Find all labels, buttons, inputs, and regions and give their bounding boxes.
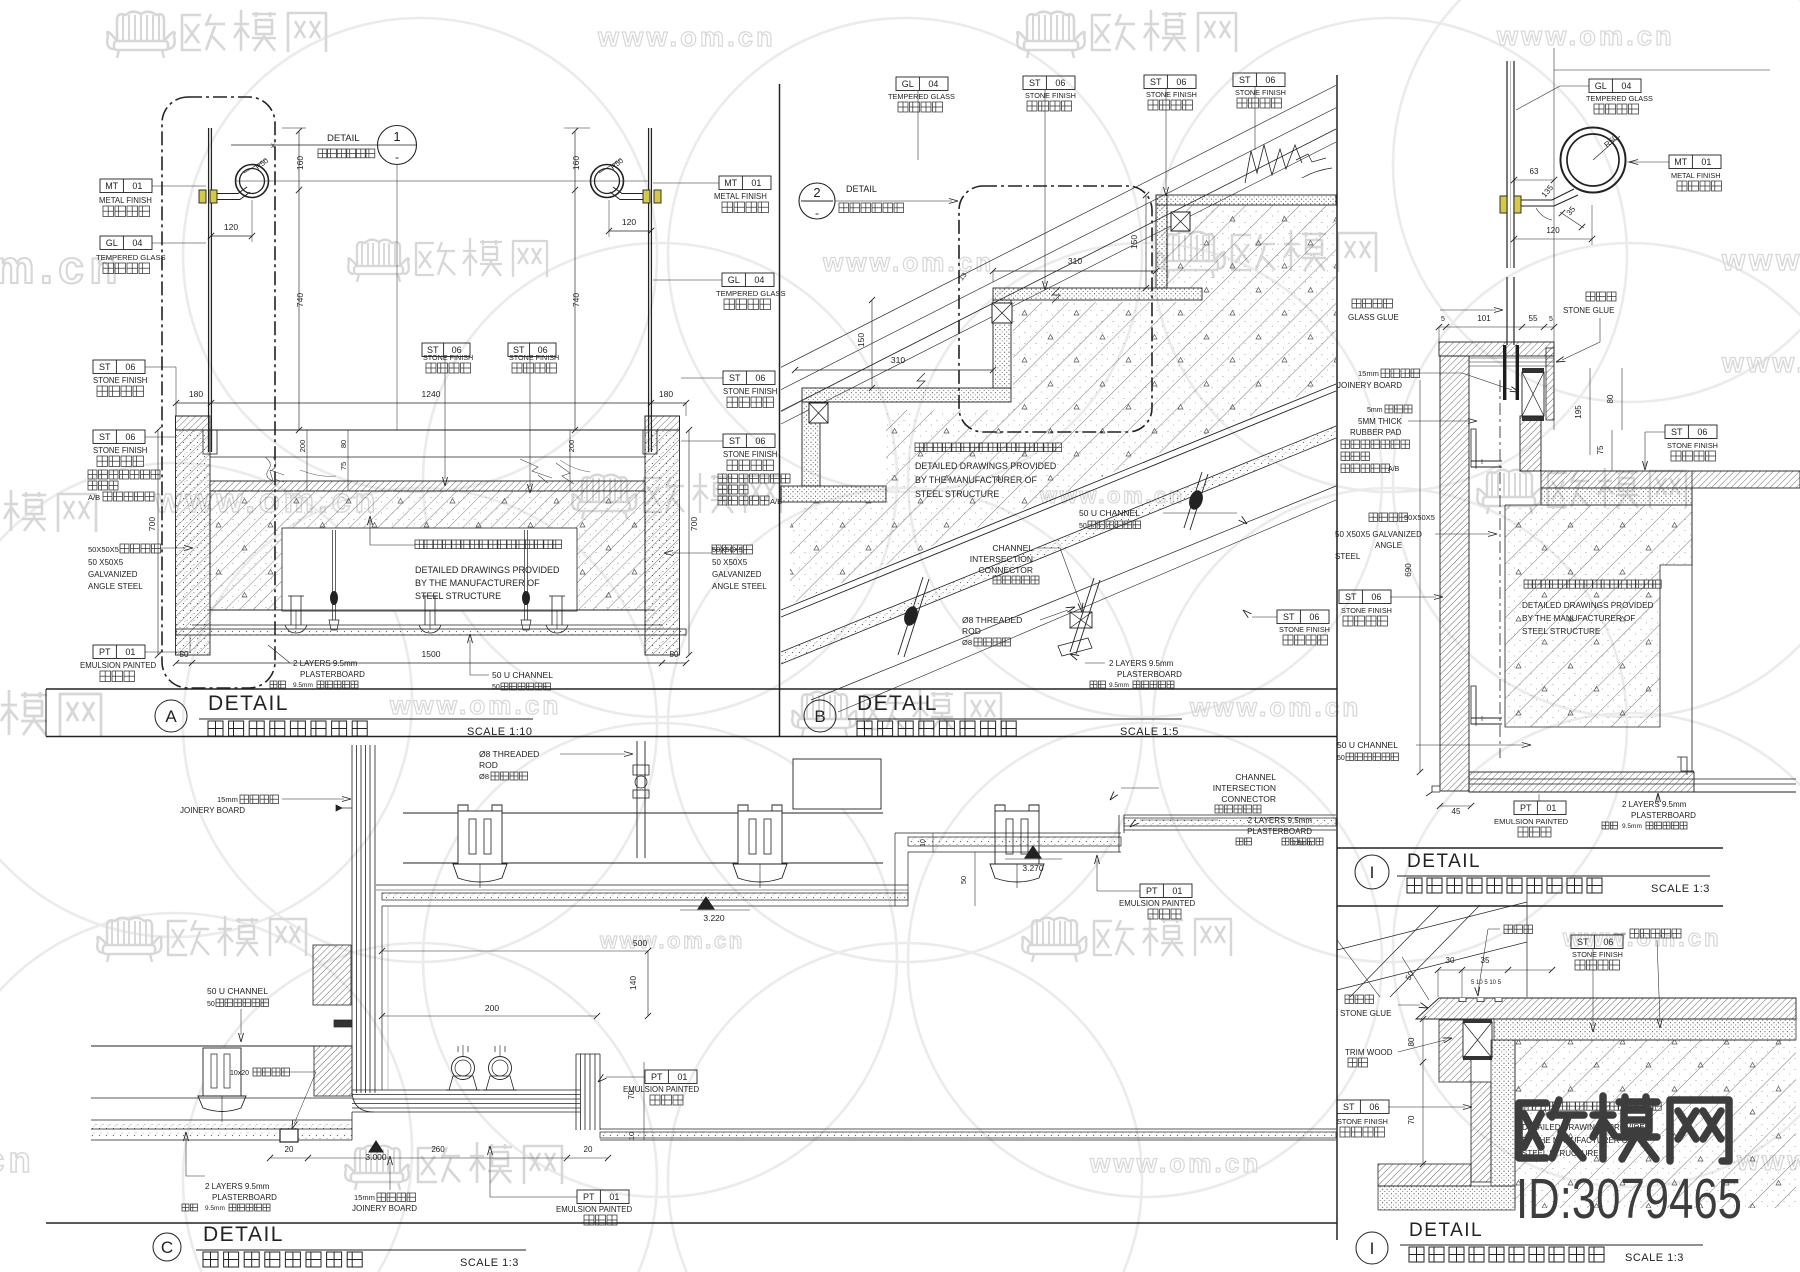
B hanger rod 3	[1184, 472, 1202, 528]
svg-text:STONE GLUE: STONE GLUE	[1563, 306, 1614, 315]
A label ST06 right lower	[723, 434, 775, 448]
I angle brackets	[1471, 429, 1476, 467]
svg-text:50 X50X5: 50 X50X5	[712, 558, 748, 567]
svg-text:www.: www.	[1721, 347, 1800, 378]
C right ceiling band upper	[1124, 814, 1336, 816]
A label PT01 left	[93, 645, 145, 659]
watermark row4	[0, 690, 101, 736]
A label GL04 right	[722, 273, 774, 287]
C dim 140 right col	[1378, 955, 1380, 1040]
I dim 45	[1440, 805, 1471, 807]
I2 label ST06	[1337, 1100, 1389, 1114]
svg-text:STONE FINISH: STONE FINISH	[93, 376, 147, 385]
B steel structure note	[915, 443, 1062, 452]
title C	[153, 1233, 181, 1261]
big dark watermark omw	[1519, 1096, 1729, 1161]
svg-text:200: 200	[485, 1003, 499, 1013]
A right handrail ring R50	[591, 165, 624, 198]
I2 riser stone band	[1439, 1020, 1471, 1082]
A labels ST06 mid pair	[422, 343, 470, 357]
svg-text:75: 75	[339, 462, 348, 470]
svg-text:04: 04	[928, 79, 938, 89]
svg-text:BY THE MANUFACTURER OF: BY THE MANUFACTURER OF	[1522, 614, 1635, 623]
svg-text:260: 260	[431, 1145, 445, 1154]
svg-text:150: 150	[1129, 235, 1139, 249]
svg-text:1: 1	[393, 129, 400, 144]
svg-text:06: 06	[125, 362, 135, 372]
svg-text:9.5mm: 9.5mm	[205, 1205, 225, 1212]
A right glass panel	[648, 128, 650, 452]
svg-text:ST: ST	[1283, 612, 1295, 622]
svg-text:20: 20	[584, 1145, 593, 1154]
title B	[804, 700, 836, 732]
svg-text:INTERSECTION: INTERSECTION	[1213, 783, 1276, 793]
svg-text:Ø8 THREADED: Ø8 THREADED	[479, 749, 539, 759]
svg-text:9.5mm: 9.5mm	[1292, 840, 1312, 847]
svg-text:GALVANIZED: GALVANIZED	[88, 570, 138, 579]
svg-text:75: 75	[1596, 445, 1605, 454]
I dim 120	[1514, 238, 1592, 240]
C beam box	[793, 759, 881, 809]
svg-text:-: -	[815, 206, 819, 220]
svg-text:80: 80	[1407, 1037, 1416, 1046]
svg-text:55: 55	[1529, 314, 1538, 323]
I2 lower stone bands	[1471, 1082, 1491, 1182]
svg-text:www.om.cn: www.om.cn	[1089, 1148, 1261, 1178]
svg-text:SCALE 1:10: SCALE 1:10	[467, 726, 533, 738]
svg-text:ST: ST	[1029, 78, 1041, 88]
svg-text:ST: ST	[1345, 592, 1357, 602]
svg-text:EMULSION PAINTED: EMULSION PAINTED	[80, 661, 156, 670]
I steel note	[1524, 580, 1661, 588]
svg-text:GALVANIZED: GALVANIZED	[712, 570, 762, 579]
svg-text:04: 04	[1621, 81, 1631, 91]
svg-text:ANGLE STEEL: ANGLE STEEL	[88, 582, 143, 591]
svg-text:STONE FINISH: STONE FINISH	[1279, 625, 1330, 634]
svg-text:STONE FINISH: STONE FINISH	[1337, 1117, 1388, 1126]
svg-text:63: 63	[1530, 167, 1539, 176]
I2 wood block X	[1463, 1022, 1492, 1058]
B dim 310 lower	[795, 369, 993, 371]
svg-text:GLASS GLUE: GLASS GLUE	[1348, 313, 1399, 322]
A ring axis line	[236, 180, 648, 182]
svg-text:06: 06	[1603, 937, 1613, 947]
svg-text:PLASTERBOARD: PLASTERBOARD	[212, 1193, 277, 1202]
svg-text:x: x	[271, 141, 275, 150]
watermark row1	[117, 12, 164, 41]
svg-text:1240: 1240	[422, 389, 441, 399]
svg-text:45: 45	[1452, 807, 1461, 816]
I wood block X	[1522, 372, 1544, 416]
svg-text:15mm: 15mm	[354, 1193, 375, 1202]
svg-text:ST: ST	[1343, 1102, 1355, 1112]
A top datum ticks	[282, 127, 306, 129]
I dims 195 80 75	[1589, 368, 1591, 455]
I tread stone band	[1541, 471, 1800, 488]
svg-text:ST: ST	[1671, 427, 1683, 437]
svg-text:www.: www.	[1721, 244, 1800, 277]
svg-text:CHANNEL: CHANNEL	[992, 543, 1033, 553]
A steel note box	[282, 528, 577, 611]
A dim 50/1500/50	[176, 662, 686, 664]
svg-text:TRIM WOOD: TRIM WOOD	[1345, 1048, 1393, 1057]
A left ring bracket	[214, 187, 247, 194]
svg-text:10x20: 10x20	[230, 1070, 249, 1077]
svg-text:310: 310	[891, 355, 905, 365]
svg-text:50 U CHANNEL: 50 U CHANNEL	[1079, 508, 1140, 518]
I datum line	[1554, 69, 1770, 71]
I wall stone band vertical	[1440, 356, 1469, 791]
svg-text:ST: ST	[729, 436, 741, 446]
I2 sloped lines above	[1337, 902, 1527, 950]
svg-text:80: 80	[339, 440, 348, 448]
B dashed detail boundary	[959, 186, 1152, 432]
A label ST06 left upper	[93, 360, 145, 374]
C dim 500	[382, 950, 648, 952]
svg-text:EMULSION PAINTED: EMULSION PAINTED	[1119, 899, 1195, 908]
C hanger brackets	[458, 811, 502, 864]
svg-text:30: 30	[1446, 956, 1455, 965]
svg-text:STONE FINISH: STONE FINISH	[1025, 91, 1076, 100]
svg-text:740: 740	[571, 293, 581, 307]
C wood blocking hatched	[313, 945, 351, 1005]
svg-text:I: I	[1370, 1239, 1375, 1258]
svg-text:3.220: 3.220	[703, 913, 725, 923]
svg-text:STONE FINISH: STONE FINISH	[723, 450, 777, 459]
svg-text:Ø8: Ø8	[962, 638, 972, 647]
svg-text:101: 101	[1477, 314, 1491, 323]
svg-text:JOINERY BOARD: JOINERY BOARD	[180, 806, 245, 815]
svg-text:01: 01	[677, 1072, 687, 1082]
svg-text:PLASTERBOARD: PLASTERBOARD	[300, 670, 365, 679]
svg-text:SCALE 1:3: SCALE 1:3	[460, 1257, 519, 1269]
svg-text:MT: MT	[724, 178, 737, 188]
I handrail ring R50	[1561, 128, 1626, 193]
svg-text:ST: ST	[1577, 937, 1589, 947]
svg-text:180: 180	[659, 389, 673, 399]
I glass sealant	[1503, 345, 1506, 400]
svg-text:06: 06	[1265, 75, 1275, 85]
svg-text:06: 06	[755, 373, 765, 383]
svg-text:120: 120	[622, 217, 636, 227]
svg-text:01: 01	[1701, 157, 1711, 167]
I dim 63	[1514, 179, 1554, 181]
svg-text:5: 5	[1441, 316, 1445, 323]
B step3 riser stone band	[802, 402, 820, 486]
svg-text:06: 06	[1371, 592, 1381, 602]
I right edge line	[1691, 471, 1693, 772]
A glass embedment at floor	[203, 430, 217, 454]
svg-text:STONE FINISH: STONE FINISH	[1667, 441, 1718, 450]
svg-text:PT: PT	[651, 1072, 663, 1082]
divider A|B vertical	[779, 84, 781, 737]
I dims 101 55	[1439, 326, 1554, 328]
svg-text:SCALE 1:3: SCALE 1:3	[1625, 1252, 1684, 1264]
A label GL04 left	[100, 236, 152, 250]
svg-text:A: A	[165, 707, 177, 726]
svg-text:DETAIL: DETAIL	[857, 692, 938, 715]
I2 concrete hatch	[1515, 1040, 1796, 1208]
svg-text:ST: ST	[1239, 75, 1251, 85]
A stair box left wall	[176, 430, 211, 655]
svg-text:15mm: 15mm	[217, 795, 238, 804]
svg-text:160: 160	[295, 156, 305, 170]
A ceiling hangers	[290, 596, 292, 625]
svg-text:JOINERY BOARD: JOINERY BOARD	[352, 1204, 417, 1213]
svg-text:BY THE MANUFACTURER OF: BY THE MANUFACTURER OF	[915, 475, 1037, 485]
C right ceiling band lower	[895, 832, 1121, 834]
A label ST06 left lower	[93, 430, 145, 444]
svg-text:50: 50	[1337, 755, 1345, 762]
svg-text:ROD: ROD	[479, 760, 498, 770]
svg-text:01: 01	[132, 181, 142, 191]
I2 tread stone band	[1416, 998, 1796, 1019]
A label ST06 right upper	[723, 371, 775, 385]
svg-text:om.cn: om.cn	[0, 241, 123, 293]
divider right column vertical	[1336, 75, 1338, 1240]
C bottom dims 20 260 20	[270, 1157, 608, 1159]
svg-text:180: 180	[189, 389, 203, 399]
svg-text:500: 500	[633, 938, 647, 948]
svg-text:EMULSION PAINTED: EMULSION PAINTED	[623, 1085, 699, 1094]
I bracket arm	[1521, 189, 1574, 200]
I2 dims 30 35	[1438, 969, 1552, 971]
C inner corner lines	[381, 906, 383, 1090]
svg-text:STONE FINISH: STONE FINISH	[423, 353, 473, 362]
B step3 tread stone band	[802, 388, 1011, 402]
I dim 690	[1419, 380, 1421, 772]
C label PT01 bottom	[577, 1190, 629, 1204]
svg-text:STEEL STRUCTURE: STEEL STRUCTURE	[915, 489, 999, 499]
I glass clamps	[1500, 196, 1507, 213]
svg-text:06: 06	[1055, 78, 1065, 88]
svg-text:TEMPERED GLASS: TEMPERED GLASS	[96, 253, 166, 262]
B detail reference circle 2	[799, 183, 835, 219]
svg-text:DETAILED DRAWINGS PROVIDED: DETAILED DRAWINGS PROVIDED	[1522, 601, 1654, 610]
svg-text:01: 01	[125, 647, 135, 657]
svg-text:690: 690	[1404, 563, 1413, 577]
A dash-dot boundary box	[162, 97, 275, 688]
C level mark 3.270	[1025, 846, 1041, 858]
svg-text:DETAILED DRAWINGS PROVIDED: DETAILED DRAWINGS PROVIDED	[415, 565, 560, 575]
I stone glue joint lines	[1469, 357, 1554, 359]
svg-text:DETAIL: DETAIL	[203, 1223, 284, 1246]
I2 groove notches	[1459, 998, 1466, 1002]
A slab top lines	[210, 429, 645, 431]
svg-text:1500: 1500	[422, 649, 441, 659]
svg-text:STEEL: STEEL	[1335, 552, 1361, 561]
C left U channel bracket	[203, 1048, 241, 1096]
svg-text:50 U CHANNEL: 50 U CHANNEL	[207, 986, 268, 996]
A dim 160/740 left	[298, 131, 300, 430]
svg-text:GL: GL	[1595, 81, 1607, 91]
C dim 70 10 right	[643, 1062, 645, 1129]
svg-text:DETAIL: DETAIL	[327, 133, 360, 144]
A right ring bracket	[613, 187, 646, 194]
svg-text:RUBBER PAD: RUBBER PAD	[1350, 428, 1402, 437]
B step1 anchor block	[1171, 212, 1190, 231]
svg-text:SCALE 1:3: SCALE 1:3	[1651, 883, 1710, 895]
svg-text:70: 70	[1407, 1115, 1416, 1124]
svg-text:06: 06	[1697, 427, 1707, 437]
svg-text:200: 200	[298, 440, 307, 453]
svg-text:A/B: A/B	[1388, 466, 1400, 473]
svg-text:10: 10	[627, 1132, 636, 1140]
svg-text:50 X50X5 GALVANIZED: 50 X50X5 GALVANIZED	[1335, 530, 1422, 539]
C wall screws	[340, 807, 352, 809]
B handrail break scribble	[1245, 145, 1302, 183]
A ceiling bottom structure	[207, 609, 655, 611]
svg-text:www.om.cn: www.om.cn	[389, 690, 561, 720]
title strip I lines	[1337, 847, 1723, 849]
svg-text:700: 700	[147, 517, 157, 531]
C curtain track clips	[452, 1057, 475, 1080]
svg-text:MT: MT	[1674, 157, 1687, 167]
svg-text:STONE FINISH: STONE FINISH	[1572, 950, 1623, 959]
svg-text:50X50X5: 50X50X5	[88, 545, 119, 554]
svg-text:9.5mm: 9.5mm	[1109, 682, 1129, 689]
svg-text:50X50X5: 50X50X5	[1404, 513, 1435, 522]
A dims 200/80/75 interior	[306, 430, 308, 491]
A dim 1240/180	[176, 402, 686, 404]
B dim 150 lower	[871, 300, 873, 388]
svg-text:STONE FINISH: STONE FINISH	[1341, 606, 1392, 615]
svg-text:200: 200	[567, 440, 576, 453]
C threaded rod top	[636, 741, 638, 858]
C left ceiling lines	[91, 1045, 352, 1047]
svg-text:A/B: A/B	[88, 493, 100, 502]
svg-text:9.5mm: 9.5mm	[1622, 823, 1642, 830]
svg-text:3.270: 3.270	[1022, 863, 1044, 873]
svg-text:Ø8: Ø8	[479, 772, 489, 781]
svg-text:120: 120	[1546, 226, 1560, 235]
I label ST06 wall	[1339, 590, 1391, 604]
svg-text:80: 80	[1606, 394, 1615, 403]
svg-text:Ø8 THREADED: Ø8 THREADED	[962, 615, 1022, 625]
svg-text:-: -	[395, 150, 399, 164]
svg-text:C: C	[161, 1238, 173, 1257]
svg-text:50 U CHANNEL: 50 U CHANNEL	[1337, 740, 1398, 750]
svg-text:ST: ST	[729, 373, 741, 383]
svg-text:35: 35	[1481, 956, 1490, 965]
svg-text:ST: ST	[99, 432, 111, 442]
svg-text:5 10 5 10 5: 5 10 5 10 5	[1471, 980, 1502, 986]
svg-text:ROD: ROD	[962, 626, 981, 636]
svg-text:DETAIL: DETAIL	[1409, 1220, 1483, 1241]
svg-text:01: 01	[751, 178, 761, 188]
A concrete core hatch	[210, 491, 645, 610]
svg-text:www.om.cn: www.om.cn	[1189, 692, 1361, 722]
I dashdot line	[1499, 380, 1501, 758]
svg-text:www.om.cn: www.om.cn	[822, 247, 994, 277]
I2 mortar band	[1494, 1019, 1796, 1040]
A detail reference circle 1	[378, 126, 417, 165]
svg-text:www.om.cn: www.om.cn	[599, 928, 745, 953]
svg-text:DETAILED DRAWINGS PROVIDED: DETAILED DRAWINGS PROVIDED	[915, 461, 1056, 471]
svg-text:STONE FINISH: STONE FINISH	[723, 387, 777, 396]
svg-text:TEMPERED GLASS: TEMPERED GLASS	[1586, 94, 1653, 103]
svg-text:www.om.cn: www.om.cn	[1496, 21, 1675, 51]
I wall corner stone top band	[1439, 342, 1554, 356]
svg-text:EMULSION PAINTED: EMULSION PAINTED	[556, 1205, 632, 1214]
svg-text:B: B	[814, 707, 825, 726]
I axis line	[1553, 48, 1555, 430]
svg-text:PLASTERBOARD: PLASTERBOARD	[1631, 811, 1696, 820]
svg-text:5: 5	[1549, 316, 1553, 323]
title I bottom	[1356, 1232, 1388, 1264]
C right lower edge strip	[575, 1054, 577, 1130]
A right glass clamp	[643, 190, 650, 203]
svg-text:2: 2	[813, 185, 820, 200]
I label ST06 upper right	[1665, 425, 1717, 439]
I label stone glue	[1586, 292, 1616, 301]
svg-text:I: I	[1370, 863, 1375, 882]
svg-text:STONE FINISH: STONE FINISH	[93, 446, 147, 455]
svg-text:04: 04	[132, 238, 142, 248]
A dim 700 left	[157, 430, 159, 655]
svg-text:50 U CHANNEL: 50 U CHANNEL	[492, 670, 553, 680]
svg-text:50X50X5: 50X50X5	[712, 545, 743, 554]
I riser stone band	[1546, 348, 1554, 420]
C lower right ceiling band	[600, 1128, 1336, 1130]
B labels top	[896, 77, 948, 91]
A marble finish band	[210, 481, 645, 491]
C label PT01 right	[645, 1070, 697, 1084]
svg-text:310: 310	[1068, 256, 1082, 266]
svg-text:2 LAYERS 9.5mm: 2 LAYERS 9.5mm	[1248, 816, 1313, 825]
svg-text:9.5mm: 9.5mm	[293, 682, 313, 689]
svg-text:01: 01	[609, 1192, 619, 1202]
C right ceiling step	[1118, 815, 1120, 852]
svg-text:195: 195	[1574, 405, 1583, 419]
I label GL04	[1589, 79, 1641, 93]
A label MT01 left	[100, 179, 152, 193]
svg-text:STONE FINISH: STONE FINISH	[1146, 90, 1197, 99]
watermark row3	[0, 490, 96, 532]
svg-text:PLASTERBOARD: PLASTERBOARD	[1117, 670, 1182, 679]
I ceiling end trim	[1677, 757, 1694, 775]
svg-text:EMULSION PAINTED: EMULSION PAINTED	[1494, 817, 1569, 826]
svg-text:06: 06	[125, 432, 135, 442]
A stair box right wall	[645, 430, 680, 655]
svg-text:50: 50	[180, 650, 189, 659]
B label ST06 bottom right	[1277, 610, 1329, 624]
I2 dim 50 diagonal	[1402, 957, 1429, 1000]
B stair nose line	[781, 129, 1336, 411]
A dim 120 left	[211, 235, 252, 237]
C wall stack	[351, 745, 353, 1093]
svg-text:50: 50	[670, 650, 679, 659]
svg-text:STEEL STRUCTURE: STEEL STRUCTURE	[1522, 627, 1601, 636]
I label angle steel	[1369, 513, 1408, 522]
svg-text:STONE FINISH: STONE FINISH	[509, 353, 559, 362]
svg-text:50: 50	[959, 876, 968, 884]
svg-text:2 LAYERS 9.5mm: 2 LAYERS 9.5mm	[1622, 800, 1687, 809]
svg-text:PT: PT	[1146, 886, 1158, 896]
C aluminum trim notch	[280, 1129, 298, 1142]
I ceiling band	[1469, 772, 1694, 792]
svg-text:140: 140	[628, 976, 638, 990]
C dim 140	[647, 951, 649, 1016]
I mortar band	[1541, 488, 1692, 505]
C left plasterboard band	[91, 1123, 352, 1129]
svg-text:120: 120	[224, 222, 238, 232]
svg-text:740: 740	[295, 293, 305, 307]
svg-text:GL: GL	[902, 79, 914, 89]
svg-text:ST: ST	[1150, 77, 1162, 87]
svg-text:A/B: A/B	[770, 497, 782, 506]
svg-text:5MM THICK: 5MM THICK	[1358, 417, 1403, 426]
